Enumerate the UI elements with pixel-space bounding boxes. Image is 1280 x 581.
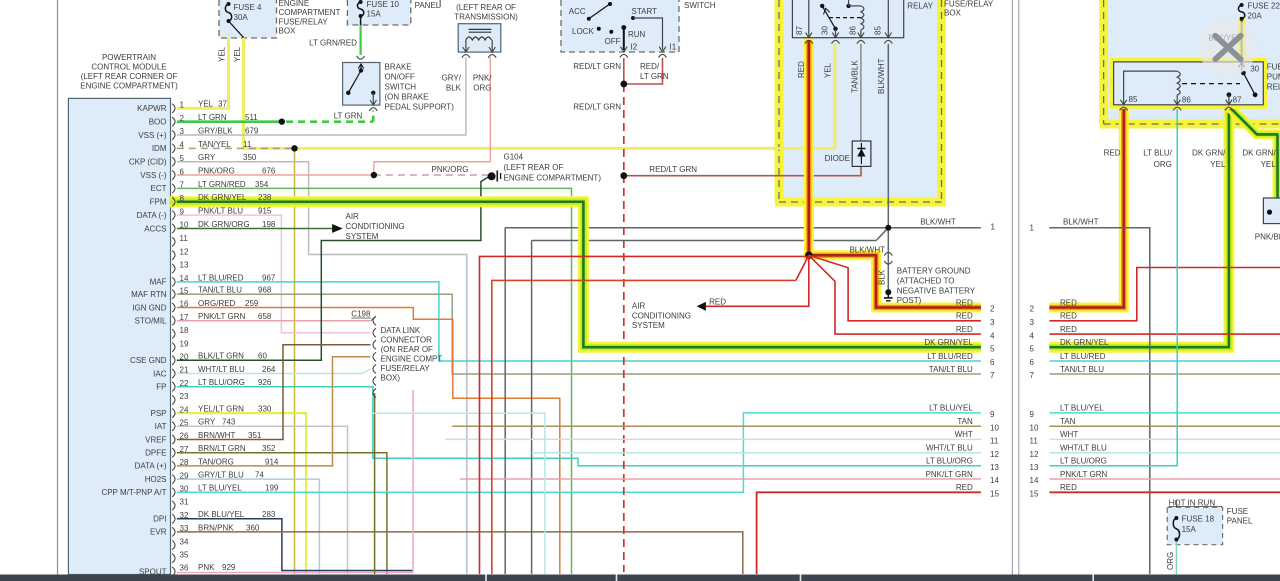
- wire TAN page2 conn10: [1049, 425, 1280, 427]
- connector arc at brake switch top: [357, 56, 365, 59]
- wire PNK/LT BLU pin9 to C198: [177, 215, 371, 333]
- svg-text:HO2S: HO2S: [145, 475, 167, 484]
- junction dot RED distribution: [805, 252, 813, 260]
- svg-text:BLK: BLK: [446, 84, 462, 93]
- svg-text:15: 15: [180, 287, 189, 296]
- svg-text:I2: I2: [631, 43, 638, 52]
- wire WHT/LT BLU pin21 to C198: [177, 369, 371, 374]
- svg-text:7: 7: [180, 181, 185, 190]
- svg-text:DIODE: DIODE: [825, 154, 850, 163]
- svg-text:GRY/LT BLU: GRY/LT BLU: [198, 471, 244, 480]
- svg-text:CONDITIONING: CONDITIONING: [346, 222, 405, 231]
- svg-text:30: 30: [1250, 65, 1259, 74]
- svg-text:30A: 30A: [234, 13, 249, 22]
- svg-text:RELAY: RELAY: [1267, 82, 1280, 91]
- glow DK GRN/YEL branch to inertia switch: [1229, 107, 1278, 198]
- svg-text:RED/LT GRN: RED/LT GRN: [573, 62, 621, 71]
- wire YEL/LT GRN pin24 down: [177, 413, 306, 574]
- glow BLK/YEL fuse22 feed: [1238, 20, 1246, 62]
- svg-text:259: 259: [245, 299, 259, 308]
- svg-text:CSE GND: CSE GND: [130, 356, 167, 365]
- svg-text:ECT: ECT: [151, 184, 167, 193]
- svg-text:YEL/LT GRN: YEL/LT GRN: [198, 405, 244, 414]
- svg-text:VSS (-): VSS (-): [140, 171, 167, 180]
- svg-text:BLK/WHT: BLK/WHT: [920, 218, 956, 227]
- page2 fuse/relay box highlighted: [1104, 0, 1280, 124]
- svg-text:AIR: AIR: [346, 212, 360, 221]
- svg-text:12: 12: [1030, 450, 1039, 459]
- AC arrow right (RED): [697, 302, 706, 311]
- svg-text:RED/LT GRN: RED/LT GRN: [573, 102, 621, 111]
- svg-text:354: 354: [255, 180, 269, 189]
- svg-text:GRY: GRY: [198, 153, 216, 162]
- wire RED page2 conn3: [1049, 268, 1280, 321]
- svg-text:15A: 15A: [367, 10, 382, 19]
- svg-text:11: 11: [1030, 437, 1039, 446]
- svg-text:34: 34: [180, 537, 189, 546]
- svg-text:13: 13: [990, 463, 999, 472]
- svg-text:FUSE 18: FUSE 18: [1182, 514, 1215, 523]
- wire LT BLU/YEL pin30 to conn9: [177, 413, 981, 492]
- svg-text:BRN/PNK: BRN/PNK: [198, 523, 234, 532]
- fuel pump relay K2 box: [1114, 62, 1264, 105]
- wire BRN/PNK pin33 down: [177, 532, 743, 574]
- svg-text:199: 199: [265, 484, 279, 493]
- svg-text:DK GRN/YEL: DK GRN/YEL: [1060, 338, 1109, 347]
- svg-text:ORG: ORG: [473, 84, 491, 93]
- svg-text:679: 679: [245, 126, 259, 135]
- wire WHT/LT BLU conn12 page1: [532, 452, 981, 454]
- fuse F10 symbol: [357, 2, 363, 16]
- svg-text:LT GRN: LT GRN: [640, 72, 669, 81]
- svg-text:IAT: IAT: [155, 422, 167, 431]
- svg-text:60: 60: [258, 352, 267, 361]
- wire GRY pin25 down: [177, 426, 348, 574]
- glow RED power page2: [1049, 106, 1123, 308]
- svg-text:CONNECTOR: CONNECTOR: [381, 336, 433, 345]
- wire TAN/BLK relay86 to diode: [860, 44, 862, 141]
- svg-text:SYSTEM: SYSTEM: [346, 232, 379, 241]
- svg-text:BOX: BOX: [944, 9, 962, 18]
- svg-text:BLK/WHT: BLK/WHT: [877, 58, 886, 94]
- wire PNK/ORG from transmission: [374, 57, 490, 175]
- svg-text:33: 33: [180, 524, 189, 533]
- svg-text:LT BLU/ORG: LT BLU/ORG: [198, 378, 245, 387]
- svg-text:TAN/YEL: TAN/YEL: [198, 140, 231, 149]
- wire BLK/LT GRN pin20 to G104: [177, 176, 490, 360]
- wire WHT page2 conn11: [1049, 438, 1280, 440]
- svg-text:30: 30: [821, 26, 830, 35]
- wire LT GRN dashed to brake switch: [286, 120, 373, 123]
- svg-text:968: 968: [258, 286, 272, 295]
- wire DK BLU/YEL pin32: [177, 519, 413, 571]
- powertrain control module U1 box: [68, 98, 170, 574]
- svg-text:PNK: PNK: [198, 563, 215, 572]
- svg-text:KAPWR: KAPWR: [137, 104, 167, 113]
- svg-text:ENGINE: ENGINE: [279, 0, 310, 8]
- svg-text:35: 35: [180, 551, 189, 560]
- wire TAN/LT BLU page2 conn7: [1049, 373, 1280, 375]
- svg-text:WHT: WHT: [1060, 430, 1078, 439]
- wire PNK/LT GRN conn14 page1: [460, 478, 981, 480]
- svg-text:10: 10: [990, 423, 999, 432]
- wire ORG/RED pin16 routing: [177, 308, 560, 575]
- svg-text:VSS (+): VSS (+): [138, 131, 167, 140]
- svg-text:TAN: TAN: [957, 417, 973, 426]
- svg-text:PNK/LT GRN: PNK/LT GRN: [926, 470, 973, 479]
- wire PNK pin36: [177, 390, 413, 573]
- svg-text:16: 16: [180, 300, 189, 309]
- svg-text:MAF RTN: MAF RTN: [131, 290, 167, 299]
- svg-text:RED: RED: [956, 312, 973, 321]
- svg-text:915: 915: [258, 207, 272, 216]
- svg-text:87: 87: [1233, 95, 1242, 104]
- diode D1: [852, 141, 871, 166]
- svg-text:CPP M/T-PNP A/T: CPP M/T-PNP A/T: [101, 488, 166, 497]
- transmission sensor box: [458, 24, 501, 52]
- svg-text:360: 360: [246, 523, 260, 532]
- svg-text:DK GRN/ORG: DK GRN/ORG: [198, 220, 250, 229]
- svg-text:24: 24: [180, 405, 189, 414]
- wire RED/LT GRN from I1: [624, 58, 663, 84]
- svg-text:743: 743: [222, 418, 236, 427]
- svg-text:LT GRN: LT GRN: [198, 113, 227, 122]
- wire RED page2 conn15: [1049, 491, 1280, 493]
- svg-text:RED: RED: [797, 61, 806, 78]
- svg-text:6: 6: [990, 358, 995, 367]
- svg-text:1: 1: [180, 101, 185, 110]
- svg-text:PNK/ORG: PNK/ORG: [198, 166, 235, 175]
- svg-text:GRY/: GRY/: [442, 74, 462, 83]
- svg-text:ENGINE COMPT: ENGINE COMPT: [381, 355, 443, 364]
- svg-text:I1: I1: [670, 43, 677, 52]
- svg-text:86: 86: [849, 26, 858, 35]
- svg-text:RED: RED: [709, 298, 726, 307]
- svg-text:(ON BRAKE: (ON BRAKE: [385, 93, 429, 102]
- svg-text:FUSE: FUSE: [1227, 507, 1248, 516]
- svg-text:LT BLU/RED: LT BLU/RED: [927, 352, 973, 361]
- wire DK GRN/YEL page2 conn5 to relay87: [1049, 107, 1229, 347]
- svg-text:28: 28: [180, 458, 189, 467]
- bottom bar: [0, 575, 1280, 581]
- svg-text:TAN/LT BLU: TAN/LT BLU: [198, 286, 242, 295]
- engine compartment fuse/relay box page1 highlighted: [779, 0, 942, 202]
- svg-text:IDM: IDM: [152, 144, 167, 153]
- svg-text:658: 658: [258, 312, 272, 321]
- BLK wire to battery ground: [887, 228, 889, 292]
- svg-text:LT BLU/YEL: LT BLU/YEL: [1060, 404, 1104, 413]
- svg-text:32: 32: [180, 511, 189, 520]
- wire GRY pin5 routing: [177, 162, 467, 574]
- svg-text:WHT/LT BLU: WHT/LT BLU: [926, 444, 973, 453]
- svg-text:PNK/BL: PNK/BL: [1255, 232, 1280, 241]
- svg-text:11: 11: [990, 437, 999, 446]
- wire TAN conn10 page1: [452, 425, 981, 427]
- svg-text:RED/LT GRN: RED/LT GRN: [649, 165, 697, 174]
- svg-text:86: 86: [1182, 95, 1191, 104]
- svg-text:4: 4: [180, 141, 185, 150]
- svg-text:FUSE 4: FUSE 4: [234, 3, 263, 12]
- svg-text:TAN/BLK: TAN/BLK: [850, 60, 859, 93]
- svg-text:87: 87: [795, 26, 804, 35]
- wire WHT/LT BLU lower run: [372, 413, 545, 574]
- svg-text:LT BLU/YEL: LT BLU/YEL: [929, 404, 973, 413]
- svg-text:31: 31: [180, 498, 189, 507]
- svg-text:PNK/: PNK/: [473, 74, 492, 83]
- svg-text:4: 4: [990, 331, 995, 340]
- wire BRN/LT GRN pin27 down: [177, 453, 387, 574]
- svg-text:11: 11: [180, 234, 189, 243]
- svg-text:929: 929: [222, 563, 236, 572]
- svg-text:676: 676: [262, 166, 276, 175]
- svg-text:264: 264: [262, 365, 276, 374]
- ignition switch box: [561, 0, 679, 52]
- ignition switch internals: [587, 17, 591, 21]
- svg-text:9: 9: [180, 207, 185, 216]
- wire PNK/LT GRN pin17 to C198: [177, 320, 371, 322]
- svg-text:85: 85: [874, 26, 883, 35]
- svg-text:14: 14: [990, 476, 999, 485]
- glow RED power page1: [809, 38, 981, 308]
- brake switch internals: [359, 68, 363, 72]
- svg-text:ACC: ACC: [569, 7, 586, 16]
- svg-text:LT BLU/RED: LT BLU/RED: [198, 273, 244, 282]
- svg-text:BLK: BLK: [878, 269, 887, 285]
- svg-text:20A: 20A: [1248, 12, 1263, 21]
- svg-text:5: 5: [180, 154, 185, 163]
- svg-text:WHT/LT BLU: WHT/LT BLU: [198, 365, 245, 374]
- wire GRY/BLK pin3 to transmission: [177, 57, 466, 135]
- svg-text:26: 26: [180, 432, 189, 441]
- C198 connector arcs: [373, 316, 376, 325]
- svg-text:(LEFT REAR CORNER OF: (LEFT REAR CORNER OF: [81, 72, 178, 81]
- svg-text:RED/: RED/: [640, 62, 660, 71]
- svg-text:DK GRN/: DK GRN/: [1192, 149, 1226, 158]
- fuse 4 internal link: [229, 21, 244, 38]
- svg-text:6: 6: [1030, 358, 1035, 367]
- wire RED/LT GRN to diode: [624, 166, 861, 175]
- svg-text:RED: RED: [956, 298, 973, 307]
- glow DK GRN/YEL page2: [1049, 106, 1229, 347]
- svg-text:DPFE: DPFE: [145, 449, 166, 458]
- wire LT BLU/ORG pin22 to conn13: [177, 387, 981, 466]
- svg-text:PANEL: PANEL: [415, 1, 441, 10]
- svg-text:21: 21: [180, 366, 189, 375]
- svg-text:BLK/WHT: BLK/WHT: [1063, 218, 1099, 227]
- svg-text:LT GRN: LT GRN: [334, 112, 363, 121]
- wire RED page2 conn4: [1049, 333, 1280, 335]
- svg-text:ORG/RED: ORG/RED: [198, 299, 236, 308]
- svg-text:926: 926: [258, 378, 272, 387]
- svg-text:BRAKE: BRAKE: [385, 63, 412, 72]
- svg-text:WHT: WHT: [955, 430, 973, 439]
- svg-text:TAN: TAN: [1060, 417, 1076, 426]
- svg-text:(LEFT REAR OF: (LEFT REAR OF: [456, 3, 516, 12]
- svg-text:967: 967: [262, 273, 276, 282]
- svg-text:OFF: OFF: [605, 37, 621, 46]
- svg-text:RED: RED: [1060, 298, 1077, 307]
- svg-text:LT GRN/RED: LT GRN/RED: [309, 39, 357, 48]
- svg-text:BLK/LT GRN: BLK/LT GRN: [198, 352, 244, 361]
- svg-text:330: 330: [258, 405, 272, 414]
- svg-text:IAC: IAC: [153, 369, 167, 378]
- svg-text:LT BLU/RED: LT BLU/RED: [1060, 352, 1106, 361]
- wire RED page2 conn2 to relay85: [1049, 107, 1123, 308]
- wire TAN/LT BLU pin15 to conn7: [177, 294, 981, 374]
- svg-text:9: 9: [1030, 410, 1035, 419]
- svg-text:TAN/LT BLU: TAN/LT BLU: [929, 365, 973, 374]
- svg-text:8: 8: [180, 194, 185, 203]
- svg-text:85: 85: [1129, 95, 1138, 104]
- svg-text:CKP (CID): CKP (CID): [129, 158, 167, 167]
- svg-text:FP: FP: [156, 383, 166, 392]
- inline connector BLK: [884, 252, 892, 255]
- svg-text:10: 10: [1030, 423, 1039, 432]
- wire ORG below fuse18: [1175, 542, 1177, 574]
- wire LT GRN/RED fuse10 to brake switch: [360, 16, 362, 25]
- wire LT BLU/RED page2 conn6: [1049, 360, 1280, 362]
- wire LT BLU/RED pin14 to conn6: [177, 282, 981, 361]
- svg-text:LT BLU/YEL: LT BLU/YEL: [198, 484, 242, 493]
- wire DK GRN/ORG pin10 to AC: [177, 227, 332, 229]
- svg-text:HOT IN RUN: HOT IN RUN: [1169, 498, 1216, 507]
- wire PNK/ORG pin6: [177, 174, 374, 176]
- svg-text:FUSE/RELAY: FUSE/RELAY: [944, 0, 994, 9]
- inertia switch box: [1263, 198, 1280, 224]
- svg-text:START: START: [632, 7, 658, 16]
- wire RED conn15 page1: [757, 492, 981, 574]
- svg-text:LT BLU/: LT BLU/: [1143, 149, 1172, 158]
- svg-text:SWITCH: SWITCH: [684, 1, 716, 10]
- svg-text:12: 12: [180, 247, 189, 256]
- svg-text:PANEL: PANEL: [1227, 516, 1253, 525]
- svg-text:20: 20: [180, 353, 189, 362]
- svg-text:YEL: YEL: [1210, 160, 1226, 169]
- svg-text:FPM: FPM: [150, 198, 167, 207]
- svg-text:STO/MIL: STO/MIL: [135, 317, 167, 326]
- svg-text:LT BLU/ORG: LT BLU/ORG: [1060, 457, 1107, 466]
- svg-text:9: 9: [990, 410, 995, 419]
- svg-text:RELAY: RELAY: [907, 1, 933, 10]
- brake on/off switch box: [343, 63, 380, 106]
- wire TAN/YEL pin4 dashed: [177, 147, 295, 149]
- BLK/WHT net from relay85 dot: [505, 227, 981, 229]
- svg-text:4: 4: [1030, 331, 1035, 340]
- wire RED to conn3 page1: [809, 255, 981, 320]
- svg-text:(LEFT REAR OF: (LEFT REAR OF: [504, 163, 564, 172]
- svg-text:PNK/ORG: PNK/ORG: [432, 165, 469, 174]
- svg-text:1: 1: [1030, 224, 1035, 233]
- svg-text:17: 17: [180, 313, 189, 322]
- svg-text:FUEL: FUEL: [1267, 62, 1280, 71]
- svg-text:BATTERY GROUND: BATTERY GROUND: [897, 267, 971, 276]
- wire TAN/ORG pin28 to C198: [177, 357, 371, 466]
- svg-text:YEL: YEL: [233, 46, 242, 62]
- svg-text:7: 7: [990, 371, 995, 380]
- wire RED/LT GRN dashed down: [623, 84, 625, 572]
- wire LT BLU/ORG page2 conn13 from relay86: [1049, 107, 1177, 466]
- svg-text:IGN GND: IGN GND: [132, 303, 166, 312]
- svg-text:2: 2: [990, 305, 995, 314]
- wire LT GRN pin2 solid: [177, 120, 282, 123]
- svg-text:74: 74: [255, 471, 264, 480]
- fuse panel box (fuse 18): [1167, 507, 1222, 544]
- svg-text:PNK/LT GRN: PNK/LT GRN: [198, 312, 245, 321]
- svg-text:198: 198: [262, 220, 276, 229]
- connector arc below brake switch: [369, 108, 377, 111]
- svg-text:TRANSMISSION): TRANSMISSION): [454, 13, 518, 22]
- svg-text:DK BLU/YEL: DK BLU/YEL: [198, 510, 245, 519]
- AC arrow left page: [332, 224, 343, 233]
- svg-text:283: 283: [262, 510, 276, 519]
- svg-text:PSP: PSP: [150, 409, 166, 418]
- svg-text:ACCS: ACCS: [144, 224, 166, 233]
- svg-text:EVR: EVR: [150, 528, 167, 537]
- wire dark olive below C198: [374, 393, 376, 574]
- svg-text:15: 15: [990, 490, 999, 499]
- svg-text:DATA (+): DATA (+): [135, 462, 167, 471]
- svg-text:3: 3: [990, 318, 995, 327]
- svg-text:C198: C198: [351, 310, 371, 319]
- svg-text:19: 19: [180, 339, 189, 348]
- svg-text:FUSE/RELAY: FUSE/RELAY: [279, 17, 329, 26]
- svg-text:PNK/LT BLU: PNK/LT BLU: [198, 207, 243, 216]
- svg-text:25: 25: [180, 419, 189, 428]
- svg-text:ORG: ORG: [1166, 552, 1175, 570]
- svg-text:RED: RED: [1060, 483, 1077, 492]
- svg-text:(ATTACHED TO: (ATTACHED TO: [897, 276, 955, 285]
- svg-text:2: 2: [180, 114, 185, 123]
- svg-text:3: 3: [1030, 318, 1035, 327]
- svg-text:PEDAL SUPPORT): PEDAL SUPPORT): [385, 103, 455, 112]
- svg-text:DATA LINK: DATA LINK: [381, 326, 421, 335]
- svg-text:BOO: BOO: [149, 117, 167, 126]
- battery ground symbol: [885, 289, 891, 295]
- wire RED relay87 core: [809, 40, 981, 308]
- svg-text:YEL: YEL: [198, 100, 214, 109]
- wire DK GRN/YEL inertia branch: [1229, 107, 1278, 198]
- svg-text:RED: RED: [1060, 312, 1077, 321]
- svg-text:(ON REAR OF: (ON REAR OF: [381, 345, 434, 354]
- wire PNK/LT GRN page2 conn14: [1049, 478, 1280, 480]
- svg-text:PNK/LT GRN: PNK/LT GRN: [1060, 470, 1107, 479]
- fuse F22: [1238, 5, 1244, 19]
- wire WHT conn11 page1: [445, 438, 981, 440]
- close button overlay: [1199, 18, 1257, 76]
- page 1 right border: [1011, 0, 1013, 575]
- glow FPM DK GRN/YEL page1: [170, 202, 981, 347]
- svg-text:5: 5: [990, 344, 995, 353]
- relay K1 internals: [808, 0, 810, 38]
- svg-text:2: 2: [1030, 305, 1035, 314]
- wire YEL pin1 to fuse4: [177, 38, 229, 108]
- svg-text:352: 352: [262, 444, 276, 453]
- svg-text:SYSTEM: SYSTEM: [632, 321, 665, 330]
- svg-text:ENGINE COMPARTMENT): ENGINE COMPARTMENT): [80, 82, 178, 91]
- wire BLK/WHT relay85 down: [887, 44, 889, 228]
- svg-text:13: 13: [1030, 463, 1039, 472]
- fuse F4 symbol: [225, 4, 231, 21]
- svg-text:BLK/WHT: BLK/WHT: [849, 245, 885, 254]
- svg-text:BRN/LT GRN: BRN/LT GRN: [198, 444, 246, 453]
- wire RED long left branch: [796, 255, 809, 280]
- svg-text:NEGATIVE BATTERY: NEGATIVE BATTERY: [897, 286, 976, 295]
- svg-text:WHT/LT BLU: WHT/LT BLU: [1060, 444, 1107, 453]
- svg-text:511: 511: [245, 113, 258, 122]
- svg-text:POST): POST): [897, 296, 922, 305]
- svg-text:CONDITIONING: CONDITIONING: [632, 311, 691, 320]
- transmission internals: [469, 28, 492, 30]
